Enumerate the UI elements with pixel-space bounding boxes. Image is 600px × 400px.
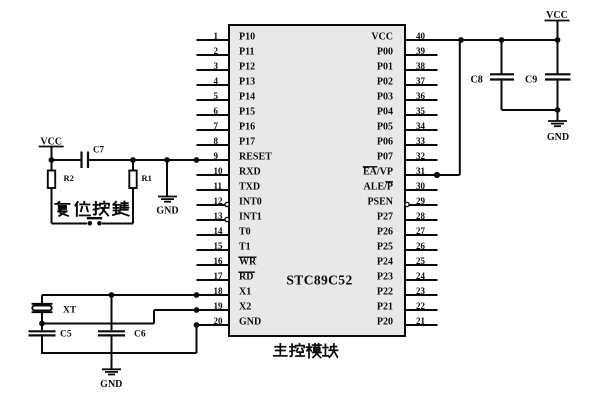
- svg-text:P04: P04: [377, 107, 393, 118]
- svg-text:P01: P01: [377, 62, 393, 73]
- svg-text:P11: P11: [239, 47, 255, 58]
- svg-text:29: 29: [416, 196, 426, 206]
- svg-text:27: 27: [416, 226, 426, 236]
- svg-text:6: 6: [214, 106, 219, 116]
- svg-text:3: 3: [214, 61, 219, 71]
- svg-text:35: 35: [416, 106, 426, 116]
- svg-text:TXD: TXD: [239, 182, 260, 193]
- svg-text:P16: P16: [239, 122, 255, 133]
- svg-text:VCC: VCC: [371, 32, 393, 43]
- svg-text:R1: R1: [142, 173, 152, 183]
- svg-text:P24: P24: [377, 257, 393, 268]
- svg-text:GND: GND: [547, 132, 569, 143]
- svg-text:GND: GND: [156, 206, 178, 217]
- svg-text:12: 12: [214, 196, 224, 206]
- svg-text:21: 21: [416, 316, 426, 326]
- svg-text:C8: C8: [471, 75, 483, 86]
- svg-text:14: 14: [214, 226, 224, 236]
- svg-text:P27: P27: [377, 212, 393, 223]
- svg-text:C6: C6: [134, 330, 146, 340]
- svg-text:P21: P21: [377, 302, 393, 313]
- svg-text:INT1: INT1: [239, 212, 262, 223]
- svg-text:P00: P00: [377, 47, 393, 58]
- svg-text:24: 24: [416, 271, 426, 281]
- svg-text:31: 31: [416, 166, 426, 176]
- svg-text:13: 13: [214, 211, 224, 221]
- svg-text:26: 26: [416, 241, 426, 251]
- svg-text:4: 4: [214, 76, 219, 86]
- svg-text:C9: C9: [525, 75, 537, 86]
- svg-text:P23: P23: [377, 272, 393, 283]
- svg-text:40: 40: [416, 31, 426, 41]
- svg-text:11: 11: [214, 181, 223, 191]
- svg-text:8: 8: [214, 136, 219, 146]
- svg-text:ALE/P: ALE/P: [364, 182, 393, 193]
- svg-text:34: 34: [416, 121, 426, 131]
- svg-text:P12: P12: [239, 62, 255, 73]
- svg-text:18: 18: [214, 286, 224, 296]
- svg-text:5: 5: [214, 91, 219, 101]
- svg-text:P02: P02: [377, 77, 393, 88]
- svg-text:P22: P22: [377, 287, 393, 298]
- svg-text:EA/VP: EA/VP: [363, 167, 393, 178]
- svg-text:23: 23: [416, 286, 426, 296]
- svg-text:37: 37: [416, 76, 426, 86]
- svg-text:GND: GND: [239, 317, 261, 328]
- svg-text:10: 10: [214, 166, 224, 176]
- svg-text:22: 22: [416, 301, 426, 311]
- svg-text:INT0: INT0: [239, 197, 262, 208]
- svg-text:WR: WR: [239, 257, 257, 268]
- svg-text:2: 2: [214, 46, 219, 56]
- svg-text:38: 38: [416, 61, 426, 71]
- svg-text:20: 20: [214, 316, 224, 326]
- svg-text:XT: XT: [63, 306, 77, 316]
- svg-text:P07: P07: [377, 152, 393, 163]
- svg-text:39: 39: [416, 46, 426, 56]
- svg-text:P10: P10: [239, 32, 255, 43]
- svg-text:P25: P25: [377, 242, 393, 253]
- svg-text:32: 32: [416, 151, 426, 161]
- svg-text:T0: T0: [239, 227, 251, 238]
- svg-text:P06: P06: [377, 137, 393, 148]
- svg-text:28: 28: [416, 211, 426, 221]
- svg-text:P17: P17: [239, 137, 255, 148]
- svg-text:17: 17: [214, 271, 224, 281]
- svg-text:RESET: RESET: [239, 152, 272, 163]
- svg-text:16: 16: [214, 256, 224, 266]
- svg-text:X1: X1: [239, 287, 251, 298]
- svg-text:P20: P20: [377, 317, 393, 328]
- svg-text:P26: P26: [377, 227, 393, 238]
- svg-text:STC89C52: STC89C52: [286, 273, 352, 288]
- svg-text:GND: GND: [100, 379, 122, 390]
- svg-text:P14: P14: [239, 92, 255, 103]
- svg-text:C7: C7: [93, 145, 104, 155]
- svg-text:P15: P15: [239, 107, 255, 118]
- svg-text:1: 1: [214, 31, 219, 41]
- svg-text:25: 25: [416, 256, 426, 266]
- svg-text:7: 7: [214, 121, 219, 131]
- svg-text:RXD: RXD: [239, 167, 261, 178]
- svg-text:VCC: VCC: [546, 10, 568, 21]
- svg-text:T1: T1: [239, 242, 251, 253]
- svg-text:X2: X2: [239, 302, 251, 313]
- svg-text:P03: P03: [377, 92, 393, 103]
- svg-text:R2: R2: [64, 173, 74, 183]
- svg-text:15: 15: [214, 241, 224, 251]
- svg-text:PSEN: PSEN: [367, 197, 393, 208]
- svg-text:P05: P05: [377, 122, 393, 133]
- svg-text:30: 30: [416, 181, 426, 191]
- svg-text:33: 33: [416, 136, 426, 146]
- svg-text:19: 19: [214, 301, 224, 311]
- svg-text:C5: C5: [60, 330, 72, 340]
- svg-text:9: 9: [214, 151, 219, 161]
- svg-text:RD: RD: [239, 272, 253, 283]
- svg-text:P13: P13: [239, 77, 255, 88]
- svg-text:36: 36: [416, 91, 426, 101]
